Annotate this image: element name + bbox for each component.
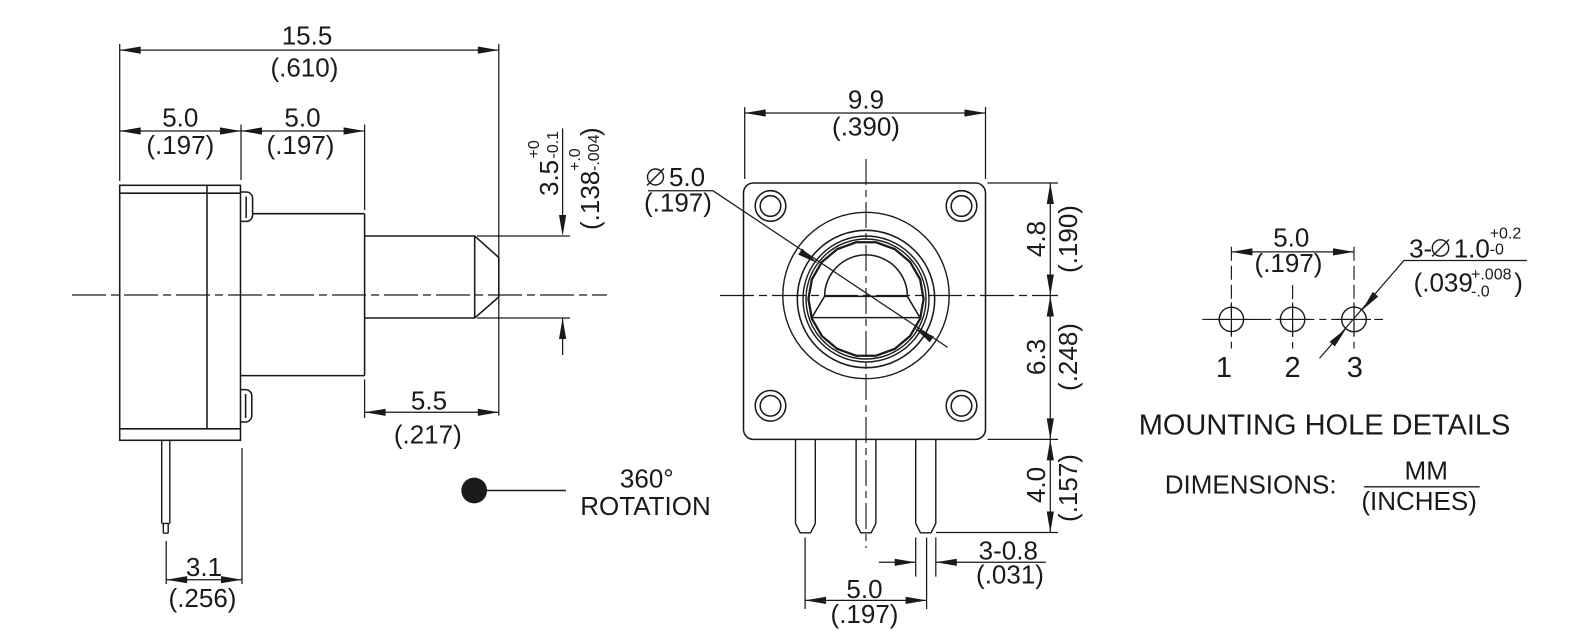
shaft D-flat dome [825, 255, 908, 296]
svg-text:(.197): (.197) [146, 130, 214, 160]
svg-text:(.217): (.217) [394, 420, 462, 450]
top clip bump [241, 192, 253, 221]
dim 5.0 (.197) pin spacing [805, 538, 927, 630]
flange square [744, 183, 986, 439]
svg-text:1.0: 1.0 [1454, 234, 1490, 264]
svg-text:): ) [1514, 268, 1523, 298]
corner hole top-right [946, 191, 977, 222]
svg-text:9.9: 9.9 [848, 85, 884, 115]
svg-text:(.157): (.157) [1053, 454, 1083, 522]
centerline horizontal front view [720, 295, 1058, 297]
bushing mid-section [241, 214, 365, 376]
svg-text:3-: 3- [1409, 234, 1432, 264]
svg-text:2: 2 [1285, 352, 1301, 384]
svg-text:-0.1: -0.1 [545, 131, 562, 159]
svg-text:+.0: +.0 [567, 148, 584, 171]
hole 1 [1219, 307, 1243, 331]
dim 15.5 (.610) overall length [120, 21, 499, 416]
dim 5.5 (.217) shaft length [365, 380, 499, 450]
svg-text:360°: 360° [620, 464, 674, 494]
svg-text:5.5: 5.5 [411, 386, 447, 416]
svg-text:+.008: +.008 [1471, 266, 1512, 283]
svg-text:(.031): (.031) [976, 560, 1044, 590]
svg-text:3.5: 3.5 [534, 160, 564, 196]
svg-text:(.256): (.256) [169, 583, 237, 613]
dim 3-0.8 (.031) pin width [879, 536, 1046, 590]
svg-text:(INCHES): (INCHES) [1361, 486, 1477, 516]
bottom clip bump [241, 390, 252, 422]
shaft with chamfered tip [365, 236, 499, 318]
svg-text:(.039: (.039 [1414, 268, 1473, 298]
svg-text:): ) [575, 127, 605, 136]
svg-text:4.0: 4.0 [1021, 467, 1051, 503]
extension lines right of flange [936, 183, 1058, 533]
svg-text:DIMENSIONS:: DIMENSIONS: [1165, 470, 1337, 500]
pin 1 front [796, 439, 816, 532]
dim 3.5 (.138) shaft flat [477, 127, 605, 355]
svg-text:+0: +0 [526, 140, 543, 158]
callout 3-dia 1.0 leader [1320, 261, 1527, 359]
svg-text:(.197): (.197) [267, 130, 335, 160]
svg-text:(.197): (.197) [831, 599, 899, 629]
dia 5.0 leader line [648, 191, 948, 348]
hole 2 [1280, 307, 1304, 331]
svg-text:-.004: -.004 [586, 134, 603, 171]
360 rotation leader [487, 490, 566, 492]
dim 4.0 (.157) pin length [1021, 439, 1083, 532]
svg-text:(.190): (.190) [1053, 205, 1083, 273]
svg-text:(.248): (.248) [1053, 323, 1083, 391]
corner hole bottom-left [755, 391, 786, 422]
svg-text:(.197): (.197) [1255, 248, 1323, 278]
dim 3.1 (.256) pin offset [166, 448, 242, 613]
shaft ring circles [797, 230, 934, 367]
svg-text:-0: -0 [1490, 242, 1504, 259]
pin 2 front [856, 439, 876, 532]
svg-text:3: 3 [1347, 352, 1363, 384]
body outline [120, 185, 241, 440]
dim 6.3 (.248) [1021, 296, 1083, 440]
svg-text:6.3: 6.3 [1021, 339, 1051, 375]
dim 4.8 (.190) [1021, 183, 1083, 296]
svg-text:5.0: 5.0 [284, 102, 320, 132]
corner hole top-left [755, 191, 786, 222]
360 rotation callout dot [461, 478, 487, 504]
corner hole bottom-right [946, 391, 977, 422]
hole 3 [1342, 307, 1367, 332]
holes centerline [1202, 318, 1383, 320]
svg-text:ROTATION: ROTATION [580, 491, 710, 521]
svg-text:5.0: 5.0 [162, 102, 198, 132]
hole center cross marks [1214, 302, 1371, 336]
svg-text:1: 1 [1216, 352, 1232, 384]
terminal pin side view [162, 440, 170, 533]
pin 3 front [916, 439, 936, 532]
svg-text:-.0: -.0 [1471, 284, 1490, 301]
svg-text:MM: MM [1405, 456, 1448, 486]
dim 5.0 (.197) bushing depth [241, 102, 365, 210]
bushing circle [783, 212, 949, 378]
dim 9.9 (.390) flange width [745, 85, 986, 180]
svg-text:15.5: 15.5 [282, 21, 333, 51]
svg-text:(.390): (.390) [832, 112, 900, 142]
dim 5.0 (.197) body depth [120, 102, 241, 180]
svg-text:(.138: (.138 [575, 171, 605, 230]
centerline left view [72, 294, 607, 296]
svg-text:4.8: 4.8 [1021, 221, 1051, 257]
svg-text:+0.2: +0.2 [1490, 225, 1522, 242]
svg-text:3.1: 3.1 [186, 552, 222, 582]
dia symbol [647, 169, 664, 186]
svg-text:(.197): (.197) [644, 188, 712, 218]
centerline vertical front view [865, 159, 867, 548]
dim 5.0 (.197) hole spacing [1231, 223, 1354, 279]
svg-text:MOUNTING HOLE DETAILS: MOUNTING HOLE DETAILS [1139, 410, 1511, 442]
svg-text:(.610): (.610) [270, 52, 338, 82]
shaft flat chamfer trapezoid [812, 296, 920, 317]
